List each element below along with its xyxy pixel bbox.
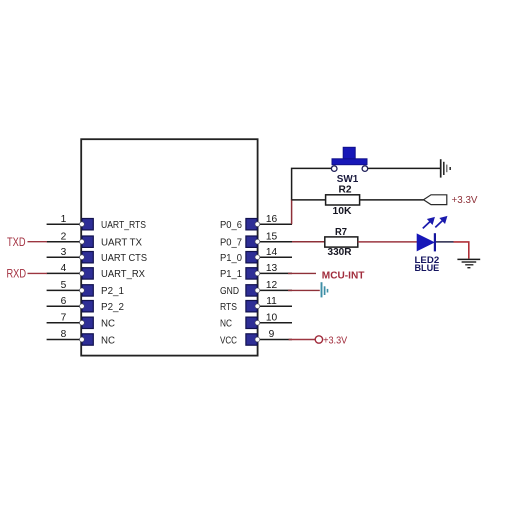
pin 3 lead xyxy=(47,247,82,258)
wire pin9 (red) xyxy=(289,339,316,341)
svg-text:5: 5 xyxy=(61,280,67,291)
svg-text:4: 4 xyxy=(61,263,67,274)
LED arrows xyxy=(423,217,447,229)
switch SW1 xyxy=(331,147,367,171)
svg-text:P2_1: P2_1 xyxy=(101,285,124,297)
wire pin16 riser (dark red lower) xyxy=(291,200,293,225)
pin 8 lead xyxy=(47,329,82,340)
pin 15 lead xyxy=(258,231,292,242)
pad pin 9 xyxy=(246,334,260,345)
svg-text:NC: NC xyxy=(101,334,115,346)
module U1 body xyxy=(81,139,257,355)
pin 16 lead xyxy=(258,214,292,225)
wire pin12 (dark red) xyxy=(288,289,320,291)
resistor R2 xyxy=(326,195,360,205)
pin 13 lead xyxy=(258,263,292,274)
svg-text:12: 12 xyxy=(266,280,278,291)
pad pin 3 xyxy=(80,252,94,263)
wire LED cathode (navy) xyxy=(436,241,454,243)
svg-text:P1_1: P1_1 xyxy=(220,268,242,280)
pin 6 lead xyxy=(47,296,82,307)
pad pin 13 xyxy=(246,268,260,279)
wire RXD to pin 4 xyxy=(28,272,48,274)
pin 9 lead xyxy=(258,329,292,340)
ground G2 (below LED) xyxy=(457,259,480,267)
power port circle +3.3V xyxy=(315,336,322,343)
svg-text:8: 8 xyxy=(61,329,67,340)
pin 1 lead xyxy=(47,214,82,225)
pad pin 6 xyxy=(80,301,94,312)
pin 2 lead xyxy=(47,231,82,242)
svg-text:P0_6: P0_6 xyxy=(220,219,242,231)
pad pin 5 xyxy=(80,285,94,296)
svg-text:R7: R7 xyxy=(335,227,347,238)
svg-text:330R: 330R xyxy=(328,247,353,258)
svg-text:7: 7 xyxy=(61,312,67,323)
svg-text:UART CTS: UART CTS xyxy=(101,252,147,264)
wire pin16 riser (black upper) xyxy=(292,168,332,200)
svg-text:6: 6 xyxy=(61,296,67,307)
pin 7 lead xyxy=(47,312,82,323)
svg-text:UART_RTS: UART_RTS xyxy=(101,219,146,231)
pad pin 1 xyxy=(80,219,94,230)
svg-text:R2: R2 xyxy=(339,184,352,195)
svg-text:BLUE: BLUE xyxy=(415,263,440,273)
svg-text:2: 2 xyxy=(61,231,67,242)
pad pin 10 xyxy=(246,317,260,328)
svg-text:11: 11 xyxy=(266,296,277,307)
pad pin 11 xyxy=(246,301,260,312)
wire pin15 to R7 xyxy=(292,241,325,243)
power flag +3.3V (top) xyxy=(424,195,447,205)
pin 11 lead xyxy=(258,296,292,307)
pad pin 16 xyxy=(246,219,260,230)
svg-text:P1_0: P1_0 xyxy=(220,252,242,264)
pad pin 12 xyxy=(246,285,260,296)
svg-text:14: 14 xyxy=(266,247,278,258)
svg-text:UART TX: UART TX xyxy=(101,237,142,249)
pin 10 lead xyxy=(258,312,292,323)
resistor R7 xyxy=(325,237,358,247)
svg-text:SW1: SW1 xyxy=(337,174,359,185)
svg-text:9: 9 xyxy=(269,329,275,340)
wire R7 to LED2 anode xyxy=(358,241,417,243)
svg-text:VCC: VCC xyxy=(220,334,237,346)
svg-text:UART_RX: UART_RX xyxy=(101,268,145,280)
wire pin13 (dark red) xyxy=(288,272,316,274)
wire R2 to +3.3V flag xyxy=(360,199,424,201)
svg-text:3: 3 xyxy=(61,247,67,258)
pin 12 lead xyxy=(258,280,292,291)
svg-text:16: 16 xyxy=(266,214,278,225)
pin 5 lead xyxy=(47,280,82,291)
wire SW1 to ground xyxy=(368,167,440,169)
svg-text:1: 1 xyxy=(61,214,67,225)
pad pin 15 xyxy=(246,236,260,247)
svg-text:NC: NC xyxy=(101,318,115,330)
pin 4 lead xyxy=(47,263,82,274)
svg-text:RXD: RXD xyxy=(7,269,27,281)
svg-text:MCU-INT: MCU-INT xyxy=(322,269,365,281)
svg-text:10: 10 xyxy=(266,312,278,323)
wire junction to R2 xyxy=(292,199,326,201)
svg-text:P2_2: P2_2 xyxy=(101,301,124,313)
pad pin 2 xyxy=(80,236,94,247)
pin 14 lead xyxy=(258,247,292,258)
pad pin 14 xyxy=(246,252,260,263)
pad pin 8 xyxy=(80,334,94,345)
pad pin 4 xyxy=(80,268,94,279)
svg-text:+3.3V: +3.3V xyxy=(452,194,478,206)
ground G1 (right of SW1) xyxy=(441,159,451,177)
svg-text:15: 15 xyxy=(266,231,278,242)
wire LED to ground (red) xyxy=(454,242,469,259)
svg-text:13: 13 xyxy=(266,263,278,274)
svg-text:TXD: TXD xyxy=(7,237,26,249)
svg-text:+3.3V: +3.3V xyxy=(323,335,347,346)
svg-text:NC: NC xyxy=(220,318,232,330)
pad pin 7 xyxy=(80,317,94,328)
wire TXD to pin 2 xyxy=(28,241,48,243)
svg-text:10K: 10K xyxy=(333,206,353,217)
ground G3 (pin 12, teal) xyxy=(322,282,328,297)
svg-text:GND: GND xyxy=(220,285,239,297)
LED D2 (LED2 BLUE) xyxy=(417,233,435,251)
svg-text:P0_7: P0_7 xyxy=(220,237,242,249)
svg-text:RTS: RTS xyxy=(220,301,237,313)
